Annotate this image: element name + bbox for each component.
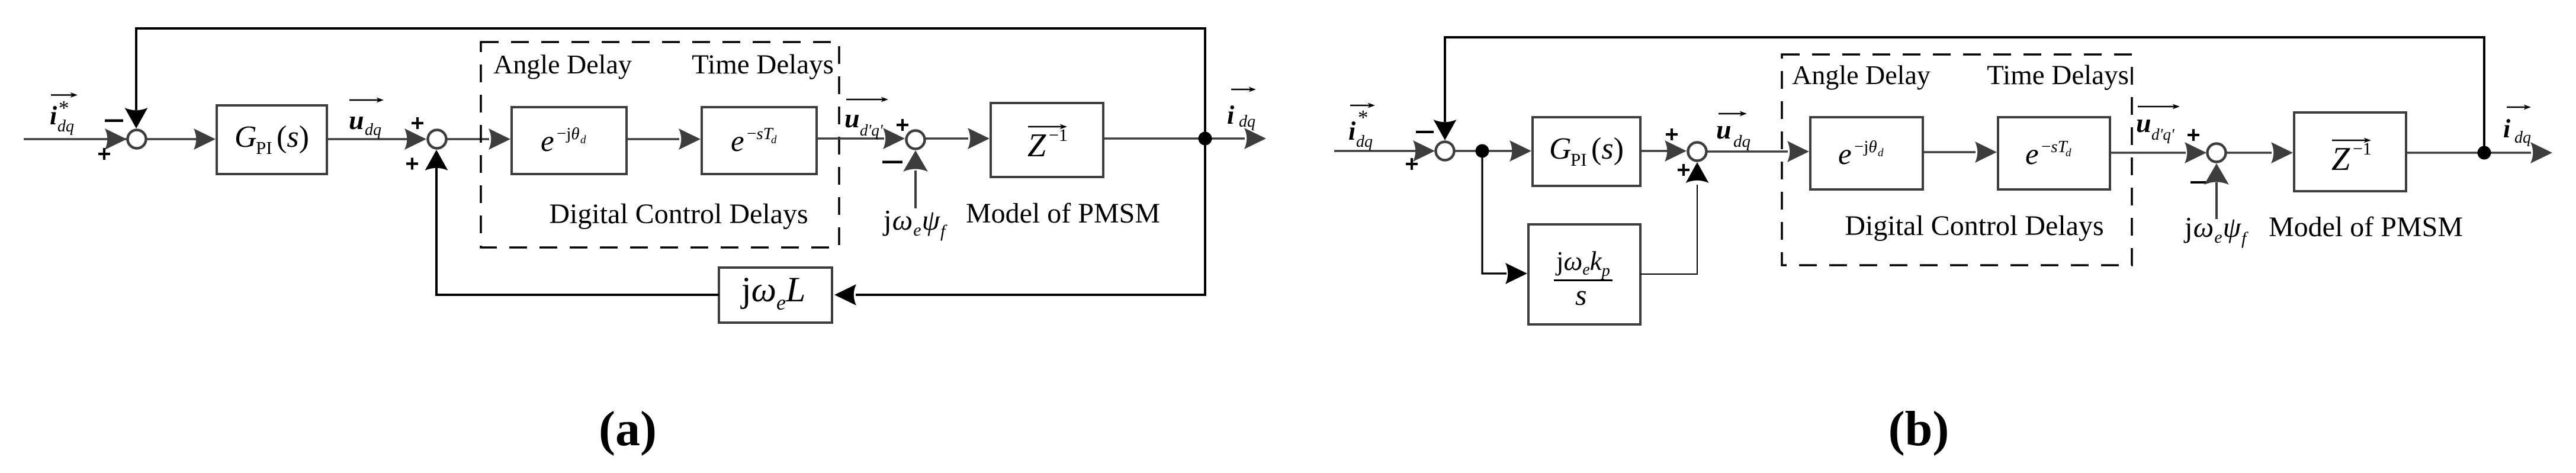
svg-text:e: e (541, 125, 554, 158)
svg-text:Digital Control Delays: Digital Control Delays (1845, 210, 2103, 242)
svg-text:dq: dq (1356, 133, 1373, 151)
node junction dot b1 (1476, 144, 1489, 158)
node label u_dq b (1716, 111, 1750, 152)
summing junction S2a (428, 130, 447, 149)
svg-text:e: e (731, 125, 744, 158)
plus sign lower at S2a (406, 158, 418, 170)
svg-text:PI: PI (1570, 149, 1587, 170)
svg-text:i: i (1348, 117, 1356, 146)
plus sign upper at S2a (412, 117, 423, 129)
block j omega_e L (719, 268, 832, 323)
wire S3b to Z block b (2226, 152, 2272, 154)
node label i*dq input a (50, 92, 78, 136)
svg-text:i: i (2503, 114, 2511, 143)
svg-text:u: u (1716, 114, 1732, 144)
plus sign upper at S2b (1666, 128, 1678, 140)
svg-text:Model of PMSM: Model of PMSM (966, 198, 1160, 229)
svg-text:Angle Delay: Angle Delay (1792, 60, 1931, 90)
wire j omega psi_f into S3b (2204, 163, 2229, 219)
svg-text:dq: dq (1733, 132, 1750, 151)
node label i*dq input b (1348, 103, 1375, 152)
svg-text:d: d (771, 134, 777, 146)
node label i_dq output b (2503, 105, 2531, 147)
minus sign at S1a (105, 120, 123, 123)
svg-text:(a): (a) (599, 401, 657, 456)
minus sign at S3a (882, 161, 902, 164)
wire input b (1334, 150, 1425, 152)
block j omega_e kp / s (1528, 224, 1640, 324)
wire time-delay to S3a (817, 137, 884, 140)
wire branch node b1 down to kp block (1482, 157, 1507, 273)
svg-text:u: u (2136, 108, 2151, 138)
plus sign at S1a (98, 148, 110, 160)
svg-text:dq: dq (1239, 112, 1255, 131)
plus sign at S1b (1406, 158, 1418, 170)
wire S2a to angle-delay block (447, 138, 489, 140)
svg-text:(s): (s) (277, 120, 309, 154)
svg-text:d: d (580, 134, 586, 146)
svg-text:*: * (1358, 106, 1369, 129)
wire top feedback a (136, 28, 1205, 136)
svg-text:*: * (59, 96, 69, 120)
svg-text:−1: −1 (2353, 139, 2372, 159)
summing junction S3b (2208, 144, 2226, 162)
svg-text:i: i (50, 101, 57, 130)
wire Z block b to output (2406, 152, 2531, 154)
block e^-sTd b (1998, 117, 2110, 189)
block Z^-1 (model of PMSM) a (991, 103, 1103, 177)
plus sign at S3b (2188, 129, 2199, 141)
wire GPI b to S2b (1640, 150, 1668, 152)
wire bottom feedback a (node down to j omega L) (856, 142, 1205, 295)
block e^-j theta d b (1810, 117, 1923, 189)
minus sign at S3b (2190, 181, 2208, 184)
node junction dot b2 (2478, 146, 2491, 160)
dashed box digital control delays b (1782, 54, 2132, 265)
svg-text:e: e (1838, 138, 1852, 171)
svg-text:−jθ: −jθ (1854, 137, 1877, 156)
svg-text:−jθ: −jθ (557, 124, 580, 143)
node junction dot a (1199, 132, 1212, 146)
minus sign at S1b (1416, 131, 1434, 133)
svg-text:d′q′: d′q′ (860, 121, 884, 139)
svg-text:dq: dq (365, 121, 381, 139)
plus sign lower at S2b (1678, 164, 1690, 176)
svg-text:Digital Control Delays: Digital Control Delays (549, 198, 808, 230)
svg-text:jωeL: jωeL (740, 270, 805, 314)
wire kp block to S2b (1640, 185, 1697, 274)
svg-text:d: d (1878, 147, 1884, 159)
wire Z block to output a (1103, 137, 1245, 140)
svg-text:Time Delays: Time Delays (1987, 60, 2129, 91)
wire time-delay b to S3b (2110, 152, 2186, 154)
svg-text:Time Delays: Time Delays (692, 49, 834, 80)
wire top feedback b (1445, 37, 2484, 150)
node label i_dq output a (1227, 87, 1256, 131)
plus sign at S3a (897, 119, 908, 131)
svg-text:Angle Delay: Angle Delay (493, 49, 632, 79)
svg-text:e: e (2025, 138, 2039, 171)
svg-text:−1: −1 (1049, 126, 1068, 145)
wire S1b to GPI b (1454, 150, 1512, 152)
wire j omega psi_f into S3a (903, 150, 928, 208)
block e^-j theta d (angle delay) a (512, 107, 627, 174)
svg-text:dq: dq (57, 117, 74, 136)
svg-text:G: G (235, 120, 257, 154)
block GPI(s) a (217, 105, 327, 174)
summing junction S2b (1688, 143, 1707, 161)
block GPI(s) b (1533, 117, 1640, 186)
node label u_d'q' b (2136, 104, 2180, 144)
dashed box digital control delays a (481, 42, 839, 247)
summing junction S3a (907, 131, 925, 149)
wire input a (24, 138, 128, 140)
wire S3a to Z block (925, 137, 968, 140)
svg-text:Z: Z (1027, 127, 1046, 164)
svg-text:i: i (1227, 101, 1235, 130)
node label u_dq a (349, 98, 384, 140)
node label u_d'q' a (844, 97, 888, 140)
wire angle-delay to time-delay a (627, 138, 679, 140)
svg-text:(b): (b) (1888, 401, 1949, 456)
svg-text:Model of PMSM: Model of PMSM (2269, 211, 2463, 243)
wire angle-delay b to time-delay b (1923, 151, 1976, 153)
wire S2b to angle-delay b (1707, 150, 1788, 153)
svg-text:dq: dq (2514, 128, 2531, 147)
svg-text:s: s (1575, 278, 1586, 311)
summing junction S1b (1436, 142, 1454, 160)
svg-text:u: u (349, 105, 364, 135)
svg-text:d′q′: d′q′ (2151, 126, 2175, 143)
svg-text:d: d (2066, 147, 2071, 159)
svg-text:PI: PI (256, 137, 272, 158)
svg-text:G: G (1549, 132, 1572, 166)
wire j omega L to S2a (436, 161, 719, 295)
svg-text:u: u (844, 103, 860, 133)
block e^-sTd (time delay) a (702, 107, 817, 174)
summing junction S1a (128, 130, 146, 149)
wire GPI to S2a (327, 138, 407, 140)
svg-text:Z: Z (2331, 141, 2350, 178)
svg-text:(s): (s) (1591, 132, 1624, 166)
block Z^-1 b (2294, 112, 2406, 191)
wire S1a to GPI block (146, 138, 197, 140)
svg-text:−sT: −sT (747, 124, 774, 143)
svg-text:−sT: −sT (2041, 137, 2068, 156)
